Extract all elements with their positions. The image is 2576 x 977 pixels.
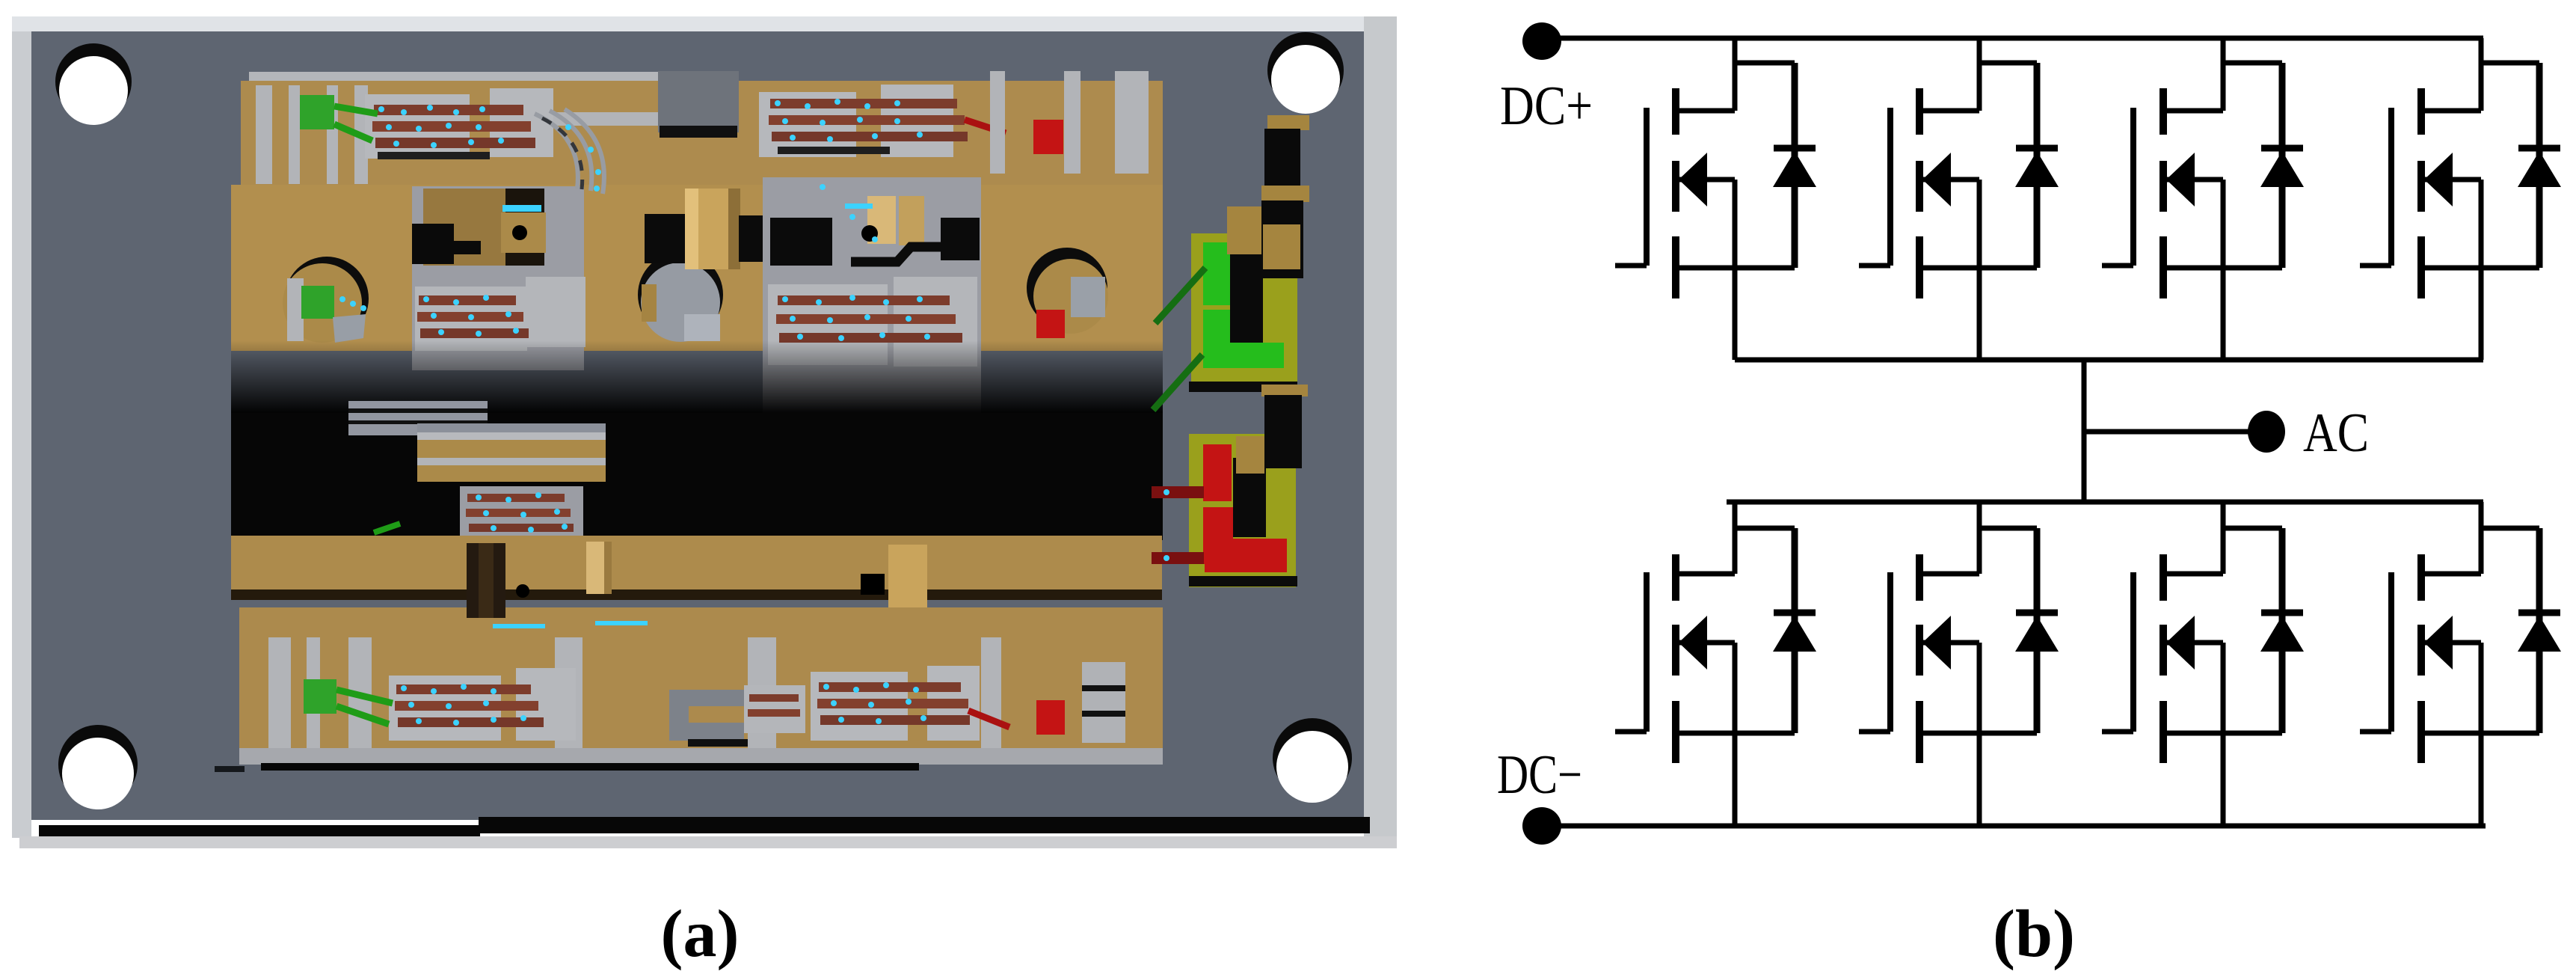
wire drain drop Q2 [1977, 38, 1982, 111]
copper shadow fade [231, 340, 1163, 415]
wire AC tap [2084, 429, 2249, 435]
diode D2 (freewheeling) [2015, 63, 2059, 268]
right connector stack [1227, 115, 1309, 468]
top-right trace strips [990, 71, 1149, 174]
wire drain drop Q8 [2479, 502, 2484, 574]
lower copper bus bar [231, 536, 1162, 600]
connector pins [1152, 486, 1204, 564]
wire drain drop Q7 [2221, 502, 2226, 574]
connector bracket on bottom row [669, 690, 748, 747]
green hookup wires [1153, 268, 1205, 410]
green output connector [1189, 233, 1297, 392]
bottom red pad [1036, 700, 1065, 735]
top-right red pad [1033, 120, 1063, 154]
transistor Q5 (MOSFET) [1615, 554, 1795, 763]
wire source drop Q4 [2479, 180, 2484, 360]
wire drain drop Q6 [1977, 502, 1982, 574]
top-center connector tab [658, 71, 739, 138]
top component row [241, 81, 1163, 186]
solder blob C [467, 543, 529, 618]
diode D1 (freewheeling) [1773, 63, 1816, 268]
die cluster 1 [334, 88, 553, 159]
wire phase-leg link [2082, 360, 2087, 504]
wire source drop Q6 [1977, 643, 1982, 826]
transistor Q4 (MOSFET) [2360, 88, 2539, 298]
middle trace strips over slot [417, 423, 606, 482]
node AC terminal dot [2248, 411, 2285, 453]
diode D4 (freewheeling) [2518, 63, 2561, 268]
red output connector [1189, 434, 1297, 587]
wire DC- rail [1542, 824, 2486, 829]
wire drain drop Q5 [1733, 502, 1738, 574]
diode D6 (freewheeling) [2015, 528, 2059, 733]
transistor Q1 (MOSFET) [1615, 88, 1795, 298]
top-left green pad [300, 95, 334, 129]
middle black slot band [231, 413, 1163, 540]
bottom green pad [304, 679, 336, 714]
wire diode top link D4 [2481, 61, 2539, 66]
svg-text:DC+: DC+ [1500, 76, 1593, 137]
wire drain drop Q3 [2221, 38, 2226, 111]
wire diode top link D8 [2481, 526, 2539, 531]
wire diode top link D5 [1735, 526, 1795, 531]
wire drain drop Q1 [1733, 38, 1738, 111]
svg-text:DC−: DC− [1497, 744, 1582, 806]
wire drain drop Q4 [2479, 38, 2484, 111]
die cluster on slot [374, 486, 583, 548]
wire diode top link D1 [1735, 61, 1795, 66]
center recess with dies [412, 186, 585, 370]
diode D7 (freewheeling) [2260, 528, 2304, 733]
slot cluster cyan dots [476, 492, 568, 533]
recess 2 cyan bond dots [782, 295, 930, 341]
transistor Q2 (MOSFET) [1859, 88, 2037, 298]
wire diode top link D6 [1979, 526, 2037, 531]
middle gray strip rows [348, 401, 488, 435]
PCB board photo panel (a) [12, 16, 1397, 848]
node DC+ terminal dot [1522, 22, 1561, 60]
wire diode top link D3 [2223, 61, 2282, 66]
wire diode top link D2 [1979, 61, 2037, 66]
center-right recess with dies [763, 177, 981, 413]
upper copper bus bar [231, 185, 1163, 351]
small pad bottom row [744, 685, 805, 733]
copper clip D [851, 545, 927, 627]
die cluster 3 [336, 668, 576, 741]
transistor Q7 (MOSFET) [2102, 554, 2282, 763]
corner mounting holes [55, 32, 1352, 809]
svg-text:AC: AC [2303, 402, 2369, 464]
transistor Q6 (MOSFET) [1859, 554, 2037, 763]
svg-text:(a): (a) [661, 897, 740, 971]
diode D5 (freewheeling) [1773, 528, 1816, 733]
wire source drop Q8 [2479, 643, 2484, 826]
copper post C [586, 542, 612, 594]
copper hole B [638, 252, 723, 342]
die cluster 2 [759, 85, 1006, 157]
wire DC+ rail [1542, 36, 2483, 41]
copper hole C [1027, 248, 1108, 338]
diode D3 (freewheeling) [2260, 63, 2304, 268]
wire lower drain rail [1727, 500, 2483, 505]
cyan highlight brackets [493, 621, 648, 628]
die cluster 4 [811, 666, 1009, 741]
copper clip assembly A [645, 189, 764, 269]
wire upper source rail [1735, 358, 2483, 363]
board edge shadow dash [215, 766, 245, 772]
transistor Q8 (MOSFET) [2360, 554, 2539, 763]
diode D8 (freewheeling) [2518, 528, 2561, 733]
wire source drop Q1 [1733, 180, 1738, 360]
wire source drop Q7 [2221, 643, 2226, 826]
wire source drop Q2 [1977, 180, 1982, 360]
wire diode top link D7 [2223, 526, 2282, 531]
wire source drop Q3 [2221, 180, 2226, 360]
bottom component row [239, 607, 1163, 771]
bond wire arcs upper [535, 109, 604, 194]
transistor Q3 (MOSFET) [2102, 88, 2282, 298]
wire source drop Q5 [1733, 643, 1738, 826]
svg-text:(b): (b) [1993, 897, 2075, 971]
node DC- terminal dot [1522, 807, 1561, 845]
inner substrate top edge [249, 72, 1163, 180]
copper hole A [283, 257, 369, 343]
